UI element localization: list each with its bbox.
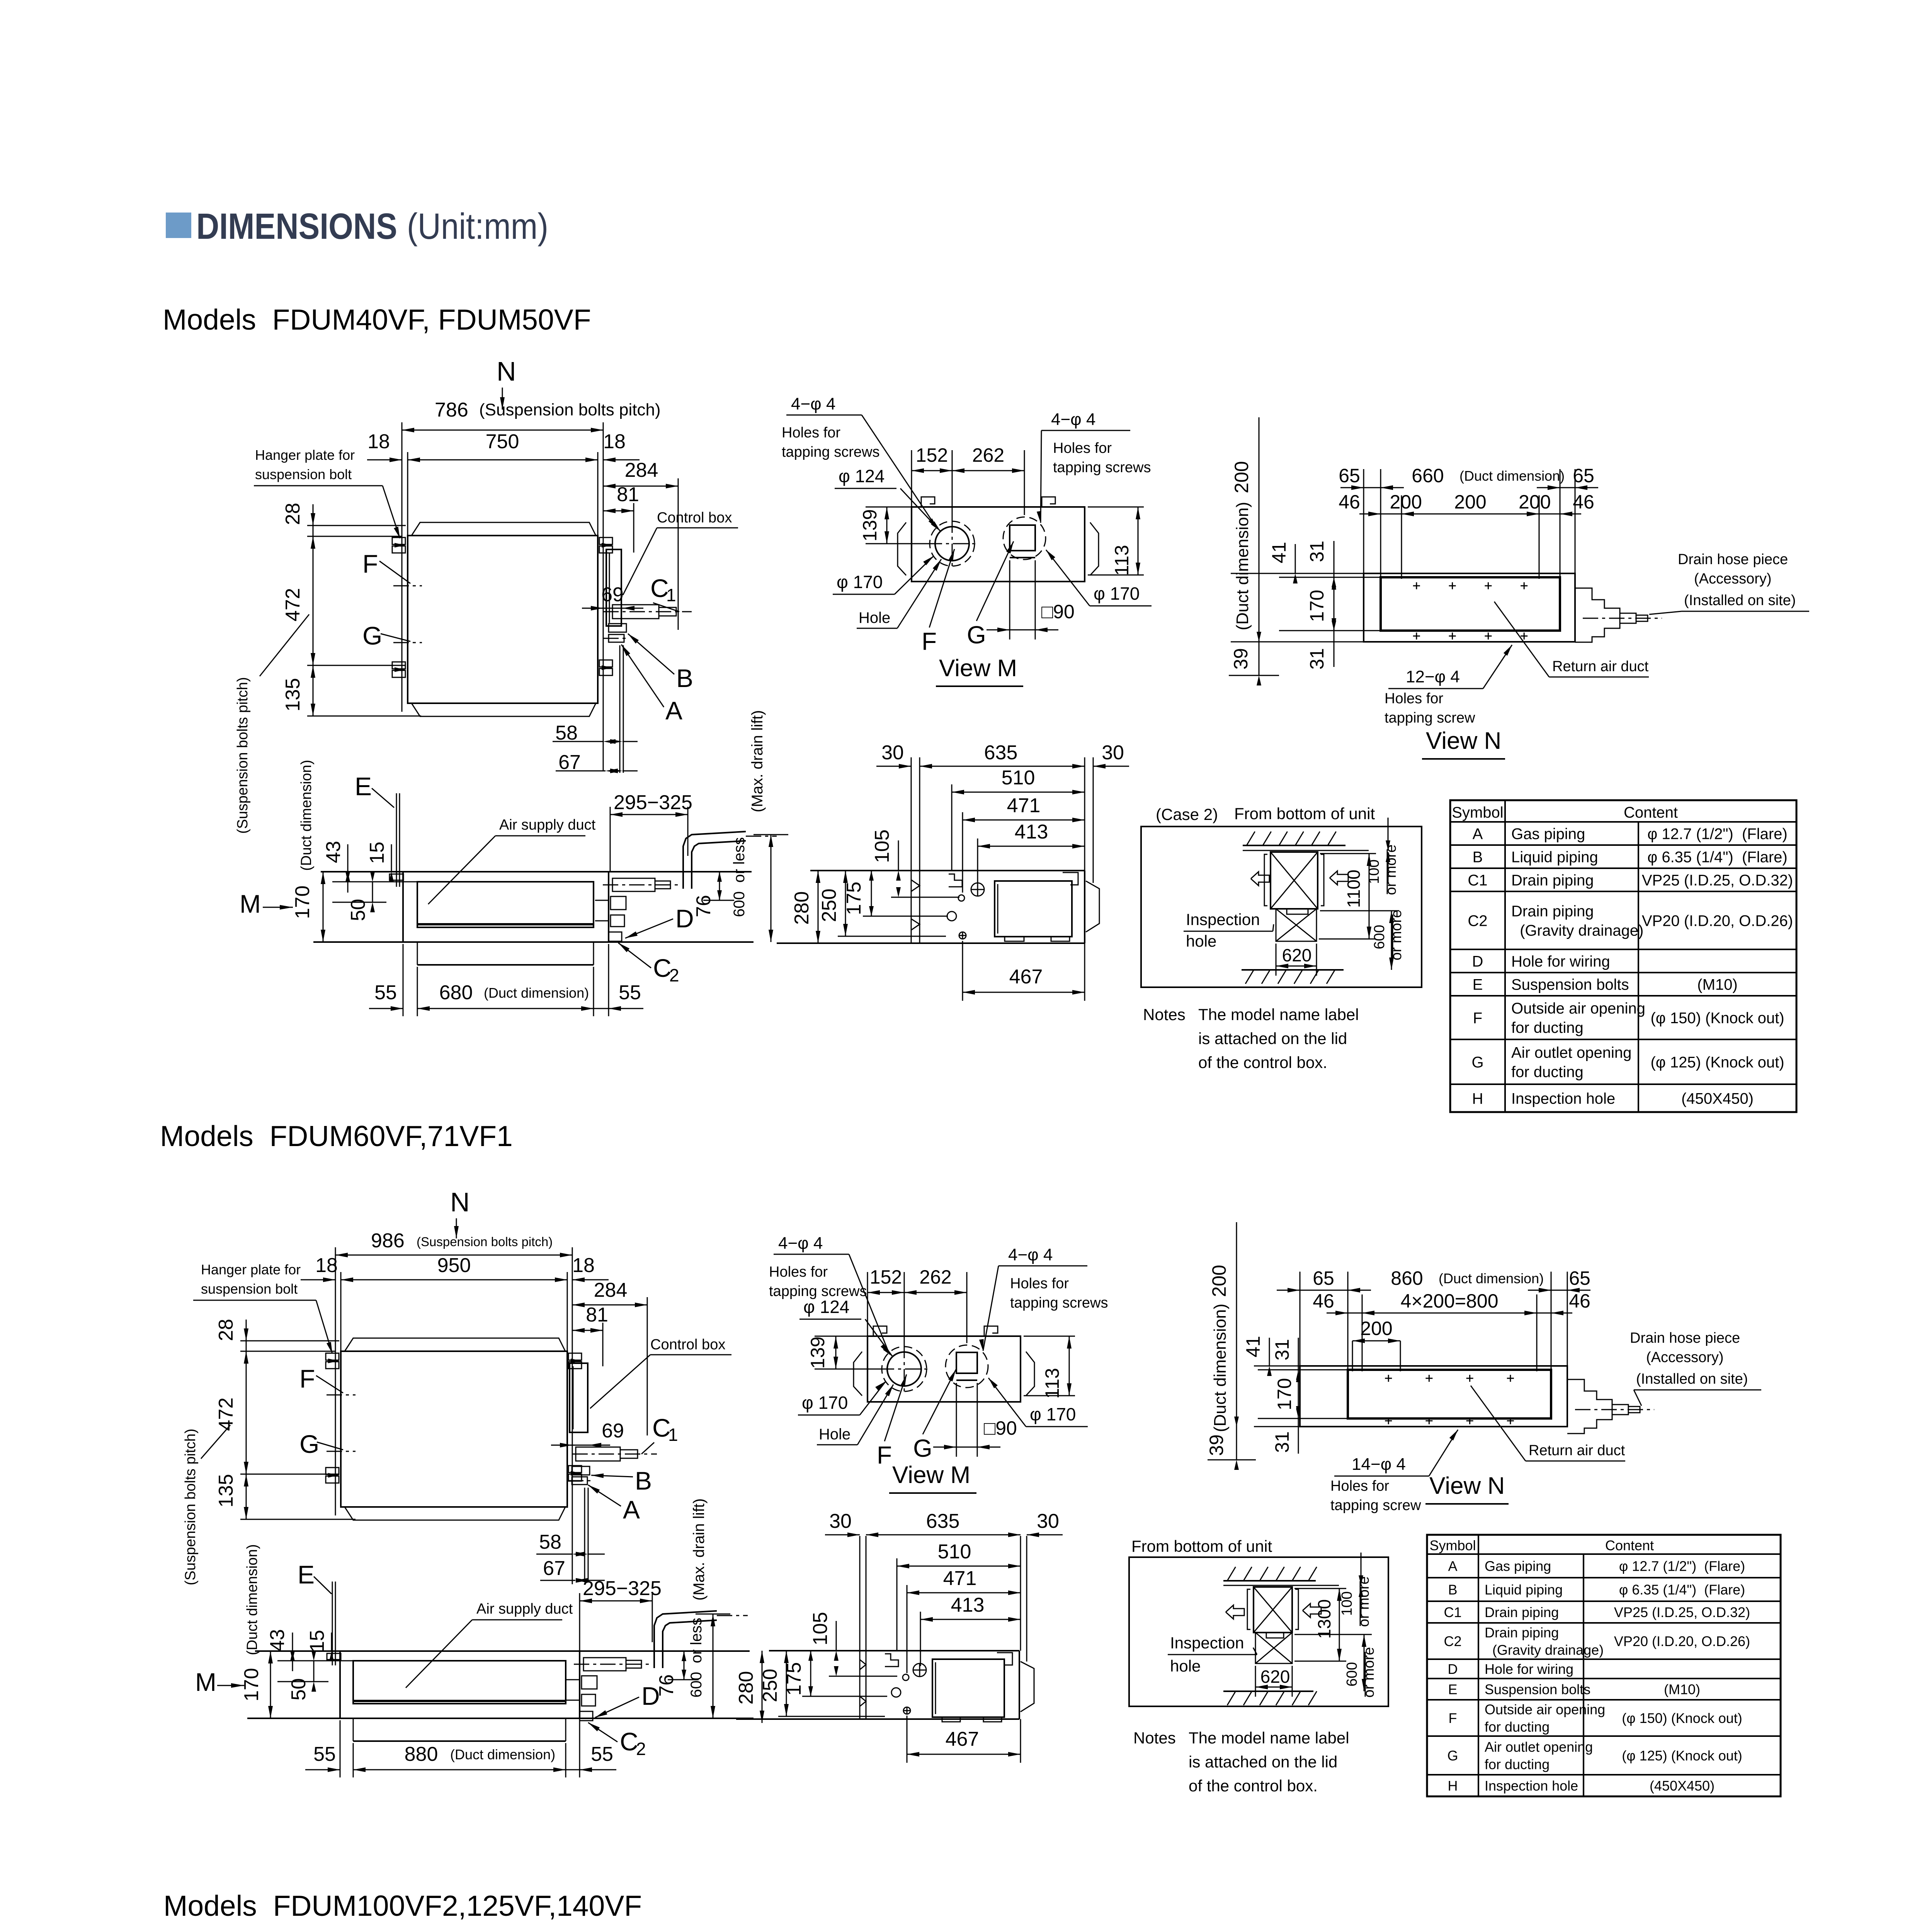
svg-text:(Duct dimension): (Duct dimension) xyxy=(450,1747,555,1762)
svg-text:1: 1 xyxy=(666,585,676,605)
svg-text:4−φ 4: 4−φ 4 xyxy=(778,1234,823,1253)
svg-text:Air outlet opening: Air outlet opening xyxy=(1511,1044,1631,1061)
svg-text:C1: C1 xyxy=(1444,1604,1461,1620)
svg-text:B: B xyxy=(635,1466,652,1495)
svg-text:D: D xyxy=(1472,953,1483,970)
svg-text:φ 124: φ 124 xyxy=(803,1297,849,1317)
svg-text:(M10): (M10) xyxy=(1664,1681,1700,1697)
svg-text:Hole for wiring: Hole for wiring xyxy=(1485,1661,1573,1677)
svg-text:467: 467 xyxy=(946,1728,979,1750)
svg-text:(Duct dimension): (Duct dimension) xyxy=(1459,468,1565,484)
svg-text:(M10): (M10) xyxy=(1697,976,1737,993)
svg-text:262: 262 xyxy=(972,444,1004,466)
svg-text:M: M xyxy=(240,889,261,918)
svg-text:39: 39 xyxy=(1206,1434,1227,1456)
svg-text:Suspension bolts: Suspension bolts xyxy=(1511,976,1629,993)
svg-text:φ 170: φ 170 xyxy=(837,572,883,592)
svg-text:φ 124: φ 124 xyxy=(839,466,885,486)
svg-text:Control box: Control box xyxy=(650,1337,725,1353)
svg-text:φ 6.35 (1/4") (Flare): φ 6.35 (1/4") (Flare) xyxy=(1647,849,1787,866)
svg-text:Holes for: Holes for xyxy=(1330,1478,1389,1494)
svg-text:81: 81 xyxy=(586,1304,608,1326)
svg-text:F: F xyxy=(877,1441,892,1469)
svg-text:30: 30 xyxy=(881,742,904,764)
svg-text:(450X450): (450X450) xyxy=(1681,1090,1754,1107)
svg-text:510: 510 xyxy=(938,1541,971,1563)
svg-text:C2: C2 xyxy=(1444,1633,1461,1649)
svg-text:H: H xyxy=(1448,1778,1458,1794)
svg-text:986: 986 xyxy=(371,1230,405,1252)
svg-text:hole: hole xyxy=(1170,1657,1201,1675)
svg-text:46: 46 xyxy=(1339,491,1360,513)
svg-text:600 or less: 600 or less xyxy=(731,837,748,917)
svg-text:D: D xyxy=(641,1682,660,1710)
svg-text:170: 170 xyxy=(291,886,314,919)
svg-text:200: 200 xyxy=(1231,461,1252,493)
svg-text:Holes for: Holes for xyxy=(1010,1276,1069,1292)
svg-text:67: 67 xyxy=(543,1557,565,1580)
svg-text:Models FDUM100VF2,125VF,140VF: Models FDUM100VF2,125VF,140VF xyxy=(163,1889,642,1922)
svg-text:280: 280 xyxy=(735,1671,757,1705)
svg-text:Content: Content xyxy=(1605,1537,1654,1553)
svg-text:31: 31 xyxy=(1306,541,1328,562)
svg-text:65: 65 xyxy=(1339,465,1360,486)
svg-text:113: 113 xyxy=(1111,545,1133,576)
svg-text:2: 2 xyxy=(669,965,679,985)
svg-text:Content: Content xyxy=(1624,804,1678,821)
svg-text:413: 413 xyxy=(951,1594,985,1616)
svg-text:G: G xyxy=(362,621,382,650)
svg-text:Return air duct: Return air duct xyxy=(1552,658,1649,675)
svg-text:69: 69 xyxy=(602,1420,624,1442)
svg-text:76: 76 xyxy=(692,895,715,917)
svg-text:(Gravity drainage): (Gravity drainage) xyxy=(1485,1642,1604,1658)
svg-text:635: 635 xyxy=(926,1510,960,1532)
svg-text:(Accessory): (Accessory) xyxy=(1694,571,1772,587)
svg-text:F: F xyxy=(1449,1710,1457,1726)
svg-text:hole: hole xyxy=(1186,932,1216,950)
svg-text:18: 18 xyxy=(315,1254,338,1277)
svg-text:4×200=800: 4×200=800 xyxy=(1400,1290,1498,1312)
svg-text:Holes for: Holes for xyxy=(769,1264,828,1280)
svg-text:135: 135 xyxy=(215,1474,237,1508)
svg-text:170: 170 xyxy=(1306,590,1328,622)
svg-text:18: 18 xyxy=(367,430,390,453)
svg-text:139: 139 xyxy=(859,509,881,541)
svg-text:or more: or more xyxy=(1361,1647,1377,1698)
svg-text:950: 950 xyxy=(437,1254,471,1277)
svg-text:C1: C1 xyxy=(1468,872,1487,889)
svg-text:(Suspension bolts pitch): (Suspension bolts pitch) xyxy=(182,1429,199,1585)
svg-text:262: 262 xyxy=(919,1266,951,1288)
svg-text:suspension bolt: suspension bolt xyxy=(255,466,352,482)
svg-text:12−φ 4: 12−φ 4 xyxy=(1406,667,1460,686)
svg-text:510: 510 xyxy=(1002,767,1035,789)
svg-text:for ducting: for ducting xyxy=(1511,1063,1584,1080)
svg-text:φ 12.7 (1/2") (Flare): φ 12.7 (1/2") (Flare) xyxy=(1619,1558,1745,1574)
svg-text:View N: View N xyxy=(1429,1473,1505,1499)
svg-text:105: 105 xyxy=(871,830,893,863)
svg-text:Drain piping: Drain piping xyxy=(1485,1624,1559,1640)
svg-text:152: 152 xyxy=(916,444,948,466)
svg-text:471: 471 xyxy=(943,1567,977,1590)
svg-text:(Duct dimension): (Duct dimension) xyxy=(1439,1270,1544,1286)
svg-text:for ducting: for ducting xyxy=(1485,1719,1550,1735)
svg-text:(Duct dimension): (Duct dimension) xyxy=(298,760,315,871)
svg-text:28: 28 xyxy=(282,503,304,525)
svg-text:(φ 125) (Knock out): (φ 125) (Knock out) xyxy=(1622,1748,1742,1764)
svg-text:F: F xyxy=(362,549,378,578)
svg-text:G: G xyxy=(913,1434,932,1462)
svg-text:Hole for wiring: Hole for wiring xyxy=(1511,953,1610,970)
svg-text:DIMENSIONS: DIMENSIONS xyxy=(196,206,397,247)
svg-text:(450X450): (450X450) xyxy=(1650,1778,1715,1794)
svg-text:tapping screws: tapping screws xyxy=(782,444,879,460)
svg-text:E: E xyxy=(355,772,372,801)
svg-text:(Accessory): (Accessory) xyxy=(1646,1349,1724,1366)
svg-text:E: E xyxy=(1473,976,1483,993)
svg-text:(Suspension bolts pitch): (Suspension bolts pitch) xyxy=(479,400,661,419)
svg-text:28: 28 xyxy=(215,1319,237,1341)
svg-text:From bottom of unit: From bottom of unit xyxy=(1234,804,1375,823)
svg-text:1100: 1100 xyxy=(1344,870,1364,908)
svg-text:D: D xyxy=(1448,1661,1458,1677)
svg-text:30: 30 xyxy=(1102,742,1124,764)
svg-text:295−325: 295−325 xyxy=(583,1577,662,1600)
svg-text:tapping screws: tapping screws xyxy=(1053,459,1151,476)
svg-text:G: G xyxy=(1471,1054,1483,1071)
svg-text:Air supply duct: Air supply duct xyxy=(499,817,596,833)
svg-text:A: A xyxy=(1473,825,1483,842)
svg-text:413: 413 xyxy=(1015,821,1048,843)
svg-text:for ducting: for ducting xyxy=(1485,1756,1550,1772)
svg-text:58: 58 xyxy=(539,1531,561,1553)
svg-text:View N: View N xyxy=(1426,728,1501,754)
svg-text:D: D xyxy=(675,904,694,933)
svg-text:for ducting: for ducting xyxy=(1511,1019,1584,1036)
svg-text:A: A xyxy=(1448,1558,1457,1574)
svg-text:C2: C2 xyxy=(1468,912,1487,929)
svg-text:39: 39 xyxy=(1230,648,1252,670)
svg-text:Notes: Notes xyxy=(1143,1005,1186,1024)
svg-text:(Suspension bolts pitch): (Suspension bolts pitch) xyxy=(417,1235,553,1249)
svg-text:31: 31 xyxy=(1271,1431,1293,1453)
svg-text:N: N xyxy=(497,356,516,386)
svg-text:Air outlet opening: Air outlet opening xyxy=(1485,1739,1593,1755)
svg-text:635: 635 xyxy=(984,742,1018,764)
svg-text:43: 43 xyxy=(322,841,345,863)
svg-text:Suspension bolts: Suspension bolts xyxy=(1485,1681,1590,1697)
svg-text:Air supply duct: Air supply duct xyxy=(476,1601,573,1617)
svg-text:is attached on the lid: is attached on the lid xyxy=(1189,1753,1337,1771)
svg-text:Notes: Notes xyxy=(1133,1729,1176,1747)
svg-text:1: 1 xyxy=(668,1425,678,1445)
svg-text:(Installed on site): (Installed on site) xyxy=(1684,592,1796,609)
svg-text:φ 6.35 (1/4") (Flare): φ 6.35 (1/4") (Flare) xyxy=(1619,1582,1745,1597)
svg-text:B: B xyxy=(1448,1582,1457,1597)
svg-text:Symbol: Symbol xyxy=(1429,1537,1476,1553)
svg-text:152: 152 xyxy=(870,1266,902,1288)
svg-text:81: 81 xyxy=(617,483,639,506)
svg-text:F: F xyxy=(299,1364,315,1393)
svg-text:G: G xyxy=(1447,1748,1458,1764)
svg-text:250: 250 xyxy=(818,889,840,922)
svg-text:55: 55 xyxy=(374,981,397,1004)
svg-text:Inspection hole: Inspection hole xyxy=(1511,1090,1615,1107)
svg-text:of the control box.: of the control box. xyxy=(1198,1053,1327,1071)
svg-text:472: 472 xyxy=(215,1398,237,1431)
svg-text:F: F xyxy=(922,628,937,655)
svg-text:200: 200 xyxy=(1208,1265,1230,1297)
svg-text:55: 55 xyxy=(313,1743,336,1765)
svg-text:G: G xyxy=(299,1430,319,1458)
svg-text:472: 472 xyxy=(282,588,304,622)
svg-text:65: 65 xyxy=(1573,465,1594,486)
svg-text:(φ 150) (Knock out): (φ 150) (Knock out) xyxy=(1622,1710,1742,1726)
svg-text:tapping screw: tapping screw xyxy=(1330,1497,1421,1514)
svg-text:467: 467 xyxy=(1009,966,1043,988)
svg-text:620: 620 xyxy=(1260,1667,1290,1687)
svg-text:Holes for: Holes for xyxy=(1053,440,1112,456)
svg-text:From bottom of unit: From bottom of unit xyxy=(1131,1537,1272,1555)
svg-text:Outside air opening: Outside air opening xyxy=(1485,1701,1605,1717)
svg-text:or more: or more xyxy=(1356,1577,1372,1627)
svg-text:B: B xyxy=(676,664,693,692)
svg-text:18: 18 xyxy=(603,430,626,453)
svg-text:18: 18 xyxy=(572,1254,595,1277)
svg-text:E: E xyxy=(1448,1681,1457,1697)
svg-text:φ 12.7 (1/2") (Flare): φ 12.7 (1/2") (Flare) xyxy=(1647,825,1787,842)
svg-text:65: 65 xyxy=(1569,1267,1590,1289)
svg-text:Drain piping: Drain piping xyxy=(1511,903,1594,920)
svg-text:55: 55 xyxy=(619,981,641,1004)
svg-text:4−φ 4: 4−φ 4 xyxy=(791,395,835,413)
svg-text:30: 30 xyxy=(1037,1510,1059,1532)
svg-text:□90: □90 xyxy=(984,1417,1017,1439)
svg-text:A: A xyxy=(623,1495,640,1524)
svg-text:Gas piping: Gas piping xyxy=(1511,825,1585,842)
svg-text:tapping screw: tapping screw xyxy=(1385,710,1475,726)
svg-text:Inspection: Inspection xyxy=(1186,910,1260,929)
svg-text:A: A xyxy=(665,696,682,725)
svg-text:Holes for: Holes for xyxy=(1385,690,1443,707)
svg-text:200: 200 xyxy=(1360,1318,1392,1339)
svg-text:Inspection hole: Inspection hole xyxy=(1485,1778,1578,1794)
svg-text:135: 135 xyxy=(282,678,304,712)
svg-text:65: 65 xyxy=(1313,1267,1334,1289)
svg-text:471: 471 xyxy=(1007,794,1041,817)
svg-text:600: 600 xyxy=(1344,1662,1360,1686)
svg-text:46: 46 xyxy=(1569,1290,1590,1312)
svg-text:14−φ 4: 14−φ 4 xyxy=(1352,1455,1406,1474)
svg-text:(Duct dimension): (Duct dimension) xyxy=(484,985,589,1001)
svg-text:30: 30 xyxy=(829,1510,852,1532)
svg-text:Holes for: Holes for xyxy=(782,425,840,441)
svg-text:VP25 (I.D.25, O.D.32): VP25 (I.D.25, O.D.32) xyxy=(1614,1604,1750,1620)
svg-text:Drain hose piece: Drain hose piece xyxy=(1678,551,1788,568)
svg-text:VP20 (I.D.20, O.D.26): VP20 (I.D.20, O.D.26) xyxy=(1642,912,1793,929)
svg-text:Symbol: Symbol xyxy=(1452,804,1503,821)
svg-text:100: 100 xyxy=(1366,859,1382,884)
svg-text:The model name label: The model name label xyxy=(1198,1005,1359,1024)
svg-text:2: 2 xyxy=(636,1739,646,1759)
svg-text:Hole: Hole xyxy=(819,1426,850,1443)
svg-text:□90: □90 xyxy=(1041,601,1075,622)
svg-text:295−325: 295−325 xyxy=(614,791,692,814)
svg-text:(Suspension bolts pitch): (Suspension bolts pitch) xyxy=(235,677,251,834)
svg-text:View M: View M xyxy=(892,1462,970,1488)
svg-text:170: 170 xyxy=(1274,1378,1295,1410)
svg-text:Models FDUM60VF,71VF1: Models FDUM60VF,71VF1 xyxy=(160,1120,513,1152)
svg-text:is attached on the lid: is attached on the lid xyxy=(1198,1029,1347,1048)
svg-text:Drain piping: Drain piping xyxy=(1485,1604,1559,1620)
svg-text:of the control box.: of the control box. xyxy=(1189,1777,1318,1795)
svg-text:620: 620 xyxy=(1282,945,1312,965)
svg-text:600 or less: 600 or less xyxy=(688,1618,705,1698)
svg-text:E: E xyxy=(298,1560,315,1589)
svg-text:113: 113 xyxy=(1041,1368,1063,1399)
svg-text:280: 280 xyxy=(791,891,813,925)
svg-text:φ 170: φ 170 xyxy=(1030,1404,1076,1424)
svg-text:G: G xyxy=(967,621,986,649)
svg-text:M: M xyxy=(195,1668,216,1696)
svg-text:or more: or more xyxy=(1383,845,1399,895)
svg-text:15: 15 xyxy=(306,1630,328,1652)
svg-text:C: C xyxy=(653,954,672,982)
svg-text:15: 15 xyxy=(366,842,388,864)
svg-text:C: C xyxy=(620,1727,638,1756)
svg-text:105: 105 xyxy=(809,1612,832,1646)
svg-text:100: 100 xyxy=(1339,1591,1355,1616)
svg-text:55: 55 xyxy=(591,1743,613,1765)
svg-text:(Duct dimension): (Duct dimension) xyxy=(244,1544,260,1655)
svg-text:67: 67 xyxy=(558,751,581,774)
svg-text:284: 284 xyxy=(594,1279,628,1301)
svg-text:Drain hose piece: Drain hose piece xyxy=(1630,1330,1740,1346)
svg-text:200 200 200: 200 200 200 xyxy=(1390,491,1551,513)
svg-text:Models FDUM40VF, FDUM50VF: Models FDUM40VF, FDUM50VF xyxy=(163,303,591,336)
svg-text:(Max. drain lift): (Max. drain lift) xyxy=(691,1498,708,1601)
svg-text:139: 139 xyxy=(807,1337,828,1369)
svg-text:B: B xyxy=(1473,849,1483,866)
svg-text:tapping screws: tapping screws xyxy=(1010,1295,1108,1311)
svg-text:N: N xyxy=(450,1187,470,1217)
svg-text:660: 660 xyxy=(1412,465,1444,486)
svg-text:1300: 1300 xyxy=(1314,1599,1334,1639)
svg-text:46: 46 xyxy=(1573,491,1594,513)
svg-text:4−φ 4: 4−φ 4 xyxy=(1051,410,1095,429)
svg-text:680: 680 xyxy=(439,981,473,1004)
svg-text:VP20 (I.D.20, O.D.26): VP20 (I.D.20, O.D.26) xyxy=(1614,1633,1750,1649)
svg-text:4−φ 4: 4−φ 4 xyxy=(1008,1245,1053,1264)
svg-text:600: 600 xyxy=(1371,925,1388,949)
svg-text:(Gravity drainage): (Gravity drainage) xyxy=(1511,922,1643,939)
svg-text:(Unit:mm): (Unit:mm) xyxy=(407,206,548,247)
svg-text:58: 58 xyxy=(555,722,578,744)
svg-text:Liquid piping: Liquid piping xyxy=(1485,1582,1563,1597)
svg-text:Control box: Control box xyxy=(657,510,732,526)
svg-text:Liquid piping: Liquid piping xyxy=(1511,849,1598,866)
svg-text:(Duct dimension): (Duct dimension) xyxy=(1211,1304,1230,1432)
svg-text:VP25 (I.D.25, O.D.32): VP25 (I.D.25, O.D.32) xyxy=(1642,872,1793,889)
svg-text:860: 860 xyxy=(1391,1267,1423,1289)
svg-text:Inspection: Inspection xyxy=(1170,1634,1244,1652)
svg-text:31: 31 xyxy=(1306,648,1328,670)
svg-text:Drain piping: Drain piping xyxy=(1511,872,1594,889)
svg-text:Hanger plate for: Hanger plate for xyxy=(255,447,355,463)
svg-text:786: 786 xyxy=(435,399,468,421)
svg-text:Gas piping: Gas piping xyxy=(1485,1558,1551,1574)
svg-text:43: 43 xyxy=(266,1629,289,1651)
svg-text:(Duct dimension): (Duct dimension) xyxy=(1233,502,1252,631)
svg-text:750: 750 xyxy=(486,430,519,453)
svg-text:View M: View M xyxy=(939,655,1017,682)
svg-text:284: 284 xyxy=(625,459,658,481)
svg-text:F: F xyxy=(1473,1010,1482,1027)
svg-text:suspension bolt: suspension bolt xyxy=(201,1281,298,1297)
svg-text:φ 170: φ 170 xyxy=(802,1393,848,1413)
svg-text:170: 170 xyxy=(240,1668,263,1702)
svg-text:41: 41 xyxy=(1268,542,1290,563)
svg-text:Return air duct: Return air duct xyxy=(1529,1442,1625,1459)
svg-text:31: 31 xyxy=(1271,1339,1293,1361)
svg-text:(Max. drain lift): (Max. drain lift) xyxy=(749,710,766,813)
svg-text:Outside air opening: Outside air opening xyxy=(1511,1000,1645,1017)
svg-text:Hole: Hole xyxy=(859,609,890,626)
svg-text:φ 170: φ 170 xyxy=(1094,583,1140,604)
svg-text:The model name label: The model name label xyxy=(1189,1729,1349,1747)
svg-text:(φ 125) (Knock out): (φ 125) (Knock out) xyxy=(1650,1054,1784,1071)
svg-text:(Case 2): (Case 2) xyxy=(1156,805,1218,823)
svg-text:(φ 150) (Knock out): (φ 150) (Knock out) xyxy=(1650,1010,1784,1027)
svg-text:175: 175 xyxy=(843,882,865,915)
svg-text:Hanger plate for: Hanger plate for xyxy=(201,1262,301,1277)
svg-text:H: H xyxy=(1472,1090,1483,1107)
svg-text:41: 41 xyxy=(1242,1336,1264,1357)
svg-text:880: 880 xyxy=(405,1743,438,1765)
svg-text:46: 46 xyxy=(1313,1290,1334,1312)
svg-text:69: 69 xyxy=(601,583,624,606)
svg-text:(Installed on site): (Installed on site) xyxy=(1636,1371,1748,1387)
